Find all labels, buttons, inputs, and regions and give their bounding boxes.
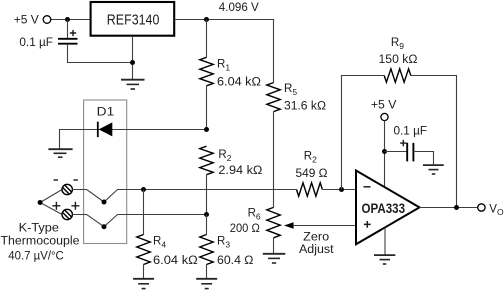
wire op-amp output: [420, 207, 478, 209]
wire cap C1 top stem: [67, 20, 69, 39]
capacitor C1 plus sign: [70, 30, 76, 36]
wire R6 to ground: [273, 238, 275, 254]
voltage reference U1 REF3140 box: [91, 2, 175, 36]
ground (diode): [48, 149, 72, 157]
resistor R2 549: [297, 183, 323, 196]
resistor R3: [200, 235, 213, 265]
wire R4 to ground: [143, 265, 145, 279]
wire cap C2 to ground: [413, 152, 433, 166]
diode D1 symbol: [97, 122, 99, 137]
svg-text:R3: R3: [217, 235, 230, 249]
wire power node to cap C2: [385, 151, 408, 153]
svg-text:D1: D1: [97, 107, 115, 119]
wire thermocouple left junction: [40, 190, 62, 215]
svg-text:31.6 kΩ: 31.6 kΩ: [284, 100, 326, 112]
wire R1 bottom to diode node: [206, 86, 208, 130]
node power junction dot: [382, 149, 387, 154]
ground (R4): [133, 279, 154, 289]
svg-text:200 Ω: 200 Ω: [230, 223, 260, 235]
svg-text:OPA333: OPA333: [362, 201, 406, 216]
svg-text:R5: R5: [284, 83, 297, 97]
svg-text:4.096 V: 4.096 V: [219, 2, 259, 14]
wire R1 top stem: [206, 20, 208, 58]
node thermocouple junction dot: [38, 200, 43, 205]
node minus input junction dot: [339, 187, 344, 192]
node upper dip junction dot: [102, 200, 107, 205]
svg-text:40.7 µV/°C: 40.7 µV/°C: [8, 251, 64, 263]
resistor R2 2.94k: [200, 146, 213, 175]
svg-text:K-Type: K-Type: [19, 222, 59, 234]
op-amp plus sign: [364, 221, 371, 228]
wire REF3140 ground pin: [132, 36, 134, 80]
svg-text:60.4 Ω: 60.4 Ω: [217, 255, 254, 267]
wire R5 bottom to R6 top: [273, 112, 275, 208]
wire R2 549 to minus input node: [322, 189, 356, 191]
svg-text:150 kΩ: 150 kΩ: [379, 54, 418, 66]
ground (R6): [263, 254, 286, 263]
minus sign left of upper circle: [54, 179, 59, 181]
terminal Vo open circle: [478, 204, 485, 211]
node lower dip junction dot: [102, 224, 107, 229]
isothermal block box around D1 and cold junctions: [84, 100, 127, 244]
terminal +5V open circle: [43, 16, 51, 24]
wire upper thermocouple lead with cold-junction dip: [72, 190, 296, 203]
resistor R4: [137, 235, 150, 265]
wire R3 to ground: [206, 265, 208, 279]
minus sign right of upper circle: [73, 179, 78, 181]
svg-text:0.1 µF: 0.1 µF: [394, 125, 428, 137]
wire cap C1 bottom to ground node: [68, 44, 133, 63]
resistor R1: [200, 57, 213, 86]
svg-text:R6: R6: [248, 207, 261, 221]
plus sign left of lower circle: [52, 202, 60, 210]
svg-text:VO: VO: [489, 203, 504, 217]
capacitor C2 plus sign: [400, 140, 406, 146]
node R4 junction dot: [141, 187, 146, 192]
wire REF3140 output 4.096V rail: [174, 20, 273, 83]
svg-text:Zero: Zero: [303, 231, 329, 243]
resistor R9: [384, 69, 411, 82]
wire +5V to op-amp power pin: [384, 121, 386, 187]
op-amp U2 OPA333 triangle: [356, 171, 420, 245]
potentiometer R6: [267, 207, 280, 237]
wire R3 stem: [206, 215, 208, 235]
svg-text:Adjust: Adjust: [299, 244, 334, 256]
terminal +5V op-amp open circle: [381, 113, 388, 120]
svg-text:R9: R9: [391, 37, 404, 51]
ground (op-amp): [374, 255, 395, 264]
capacitor C2 plates: [406, 143, 408, 162]
wire R4 stem: [143, 190, 145, 235]
svg-text:+5 V: +5 V: [14, 15, 39, 27]
node junction dot R1/R2/diode: [204, 127, 209, 132]
node junction dot ref-gnd/cap: [130, 60, 135, 65]
svg-text:2.94 kΩ: 2.94 kΩ: [218, 165, 262, 177]
svg-text:6.04 kΩ: 6.04 kΩ: [217, 77, 261, 89]
node R2/R3 junction dot: [204, 212, 209, 217]
svg-text:R2: R2: [218, 149, 231, 163]
ground (REF3140): [121, 80, 145, 89]
svg-text:0.1 µF: 0.1 µF: [19, 37, 53, 49]
wire feedback loop: [342, 76, 457, 208]
wire R2 bottom to lower thermocouple wire: [206, 175, 208, 215]
wire lower thermocouple lead with cold-junction dip: [72, 215, 206, 227]
svg-text:R4: R4: [153, 235, 166, 249]
potentiometer wiper arrow (zero adjust): [284, 222, 294, 228]
svg-text:R1: R1: [217, 59, 230, 73]
wire diode net gnd to R1/R2 node: [60, 130, 207, 150]
svg-text:6.04 kΩ: 6.04 kΩ: [153, 255, 198, 267]
ground (C2): [423, 165, 444, 174]
svg-text:549 Ω: 549 Ω: [296, 168, 328, 180]
wire wiper to op-amp plus input: [293, 225, 357, 227]
plus sign right of lower circle: [71, 202, 79, 210]
wire op-amp ground pin: [384, 228, 386, 256]
svg-text:R2: R2: [304, 151, 317, 165]
node output junction dot: [454, 205, 459, 210]
svg-text:Thermocouple: Thermocouple: [1, 236, 80, 248]
svg-text:+5 V: +5 V: [371, 99, 397, 111]
node junction dot 4.096V: [204, 17, 209, 22]
svg-text:REF3140: REF3140: [107, 13, 160, 29]
wire +5V to REF3140 input: [51, 19, 91, 21]
capacitor C1 plates: [58, 38, 78, 40]
resistor R5: [267, 83, 280, 112]
thermocouple contact circle lower: [62, 209, 72, 219]
thermocouple contact circle upper: [62, 184, 72, 194]
op-amp minus sign: [364, 186, 371, 188]
node junction dot +5V/cap: [65, 17, 70, 22]
ground (R3): [196, 279, 217, 289]
